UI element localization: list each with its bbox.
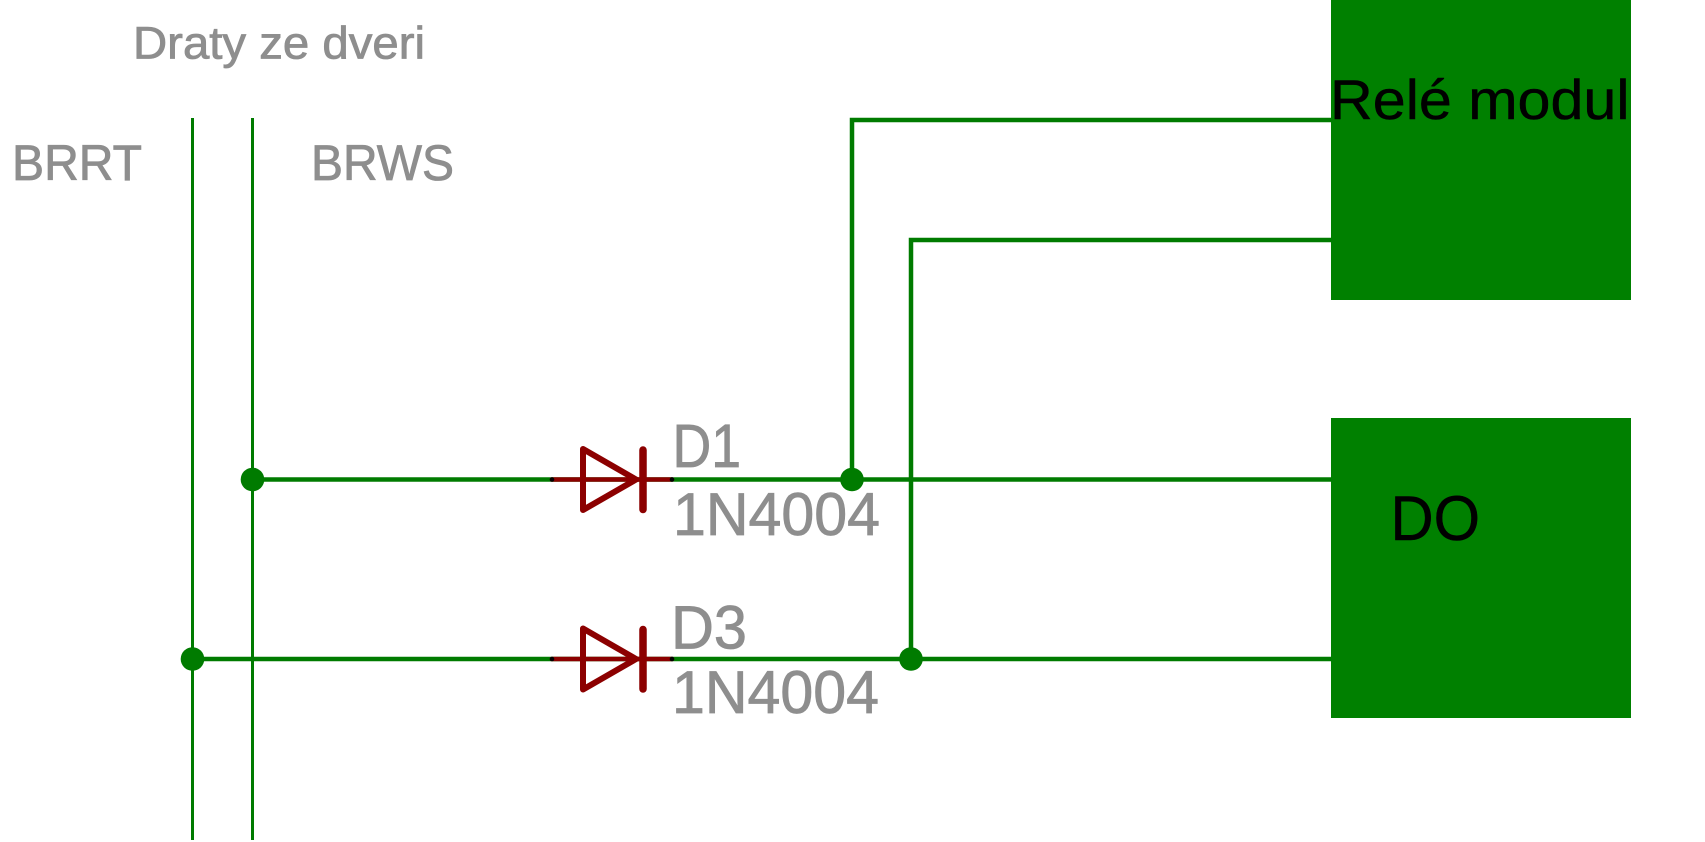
wire BRRT vertical [191,118,194,840]
svg-text:Draty ze dveri: Draty ze dveri [133,18,425,69]
junction D1-Relé wire [840,468,864,492]
svg-text:BRWS: BRWS [311,134,454,191]
svg-text:Relé modul: Relé modul [1330,68,1630,131]
wire D3 row horizontal [192,657,1331,662]
diode D1 [552,449,672,510]
svg-text:DO: DO [1391,484,1481,554]
pin dot D3 anode [550,657,555,662]
junction BRRT-D3 [181,647,205,671]
module box DO [1331,418,1631,718]
svg-text:BRRT: BRRT [12,134,142,191]
svg-text:D1: D1 [673,412,742,480]
diode D3 [552,629,672,690]
pin dot D1 cathode [670,477,675,482]
wire D1 row horizontal [252,477,1331,482]
junction BRWS-D1 [241,468,265,492]
svg-text:1N4004: 1N4004 [673,480,880,548]
junction D3-Relé wire [899,647,923,671]
svg-text:1N4004: 1N4004 [672,658,879,726]
wire junction D1 up to Relé modul [852,120,1331,480]
svg-text:D3: D3 [671,594,747,662]
wire junction D3 up to Relé modul [911,240,1331,659]
pin dot D1 anode [550,477,555,482]
wire BRWS vertical [251,118,254,840]
pin dot D3 cathode [670,657,675,662]
module box Relé modul [1331,0,1631,300]
